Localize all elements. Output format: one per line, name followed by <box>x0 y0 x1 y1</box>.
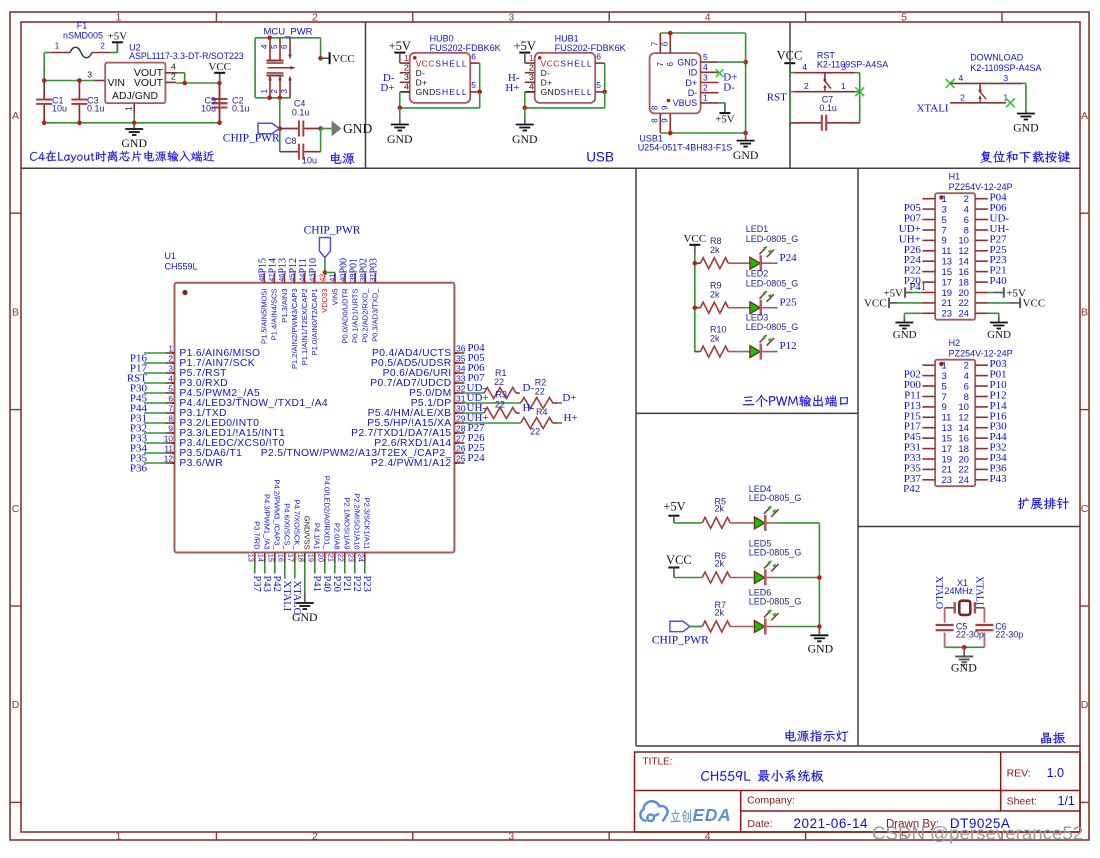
svg-text:32: 32 <box>456 384 466 394</box>
svg-text:21: 21 <box>942 298 953 309</box>
svg-text:VCC: VCC <box>777 49 803 63</box>
svg-text:P20: P20 <box>331 576 342 592</box>
svg-text:CHIP_PWR: CHIP_PWR <box>652 634 709 646</box>
svg-text:33: 33 <box>456 374 466 384</box>
svg-text:4: 4 <box>705 11 711 23</box>
svg-text:7: 7 <box>942 225 947 236</box>
svg-text:22: 22 <box>958 298 969 309</box>
svg-text:11: 11 <box>164 444 173 454</box>
svg-text:3: 3 <box>508 11 514 23</box>
svg-text:3: 3 <box>841 62 846 72</box>
svg-text:8: 8 <box>651 105 660 110</box>
svg-text:23: 23 <box>942 309 953 320</box>
svg-text:P1.2/AIN2/PWM3/CAP3: P1.2/AIN2/PWM3/CAP3 <box>290 289 299 369</box>
svg-text:H-: H- <box>523 402 535 414</box>
svg-text:11: 11 <box>942 246 952 257</box>
svg-text:P1.5/AIN5/MOSI: P1.5/AIN5/MOSI <box>260 289 269 344</box>
svg-text:16: 16 <box>277 554 286 562</box>
svg-text:17: 17 <box>287 554 296 562</box>
svg-text:U254-051T-4BH83-F1S: U254-051T-4BH83-F1S <box>638 143 733 153</box>
svg-text:P4.7/XO/SCK_: P4.7/XO/SCK_ <box>292 499 301 550</box>
svg-text:5: 5 <box>596 80 601 90</box>
svg-text:5: 5 <box>901 11 907 23</box>
svg-text:P23: P23 <box>361 576 372 592</box>
svg-text:48: 48 <box>257 274 266 282</box>
svg-text:18: 18 <box>958 444 969 455</box>
svg-text:PZ254V-12-24P: PZ254V-12-24P <box>949 182 1013 192</box>
svg-text:GND: GND <box>733 148 759 162</box>
svg-text:0.1u: 0.1u <box>819 103 837 113</box>
svg-text:22-30p: 22-30p <box>956 630 984 640</box>
svg-text:RST: RST <box>767 92 787 104</box>
svg-text:13: 13 <box>942 257 953 268</box>
svg-text:CHIP_PWR: CHIP_PWR <box>304 225 361 237</box>
svg-text:VIN5: VIN5 <box>330 289 339 306</box>
svg-text:9: 9 <box>168 424 173 434</box>
svg-text:D-: D- <box>416 68 426 78</box>
svg-text:GND: GND <box>292 610 318 624</box>
svg-text:22: 22 <box>530 427 540 437</box>
svg-text:XTALI: XTALI <box>281 581 292 612</box>
svg-text:P1.4/AIN4/SCS: P1.4/AIN4/SCS <box>270 289 279 341</box>
svg-text:30: 30 <box>456 404 466 414</box>
svg-text:1: 1 <box>168 344 173 354</box>
svg-text:D+: D+ <box>685 78 697 88</box>
svg-text:F1: F1 <box>77 21 88 31</box>
svg-text:45: 45 <box>287 274 296 282</box>
svg-text:5: 5 <box>942 215 947 226</box>
svg-text:VBUS: VBUS <box>673 98 698 108</box>
svg-text:4: 4 <box>703 62 708 72</box>
svg-text:2: 2 <box>312 11 318 23</box>
svg-text:40: 40 <box>338 274 347 282</box>
svg-text:K2-1109SP-A4SA: K2-1109SP-A4SA <box>970 63 1041 73</box>
svg-text:2: 2 <box>312 830 318 842</box>
svg-text:+5V: +5V <box>514 39 536 53</box>
svg-text:H1: H1 <box>949 171 961 181</box>
svg-text:4: 4 <box>802 62 807 72</box>
svg-text:XTALI: XTALI <box>916 102 948 114</box>
svg-text:1: 1 <box>841 81 846 91</box>
svg-text:SHELL: SHELL <box>435 58 467 68</box>
svg-text:H2: H2 <box>949 338 961 348</box>
svg-text:7: 7 <box>656 61 665 66</box>
svg-text:2k: 2k <box>710 333 720 343</box>
svg-text:P3.7/RD: P3.7/RD <box>252 521 261 550</box>
svg-text:1: 1 <box>942 361 947 372</box>
svg-text:USB: USB <box>586 150 614 165</box>
svg-text:P21: P21 <box>341 576 352 592</box>
svg-text:20: 20 <box>958 454 969 465</box>
svg-text:LED1: LED1 <box>746 224 769 234</box>
svg-text:2k: 2k <box>715 504 725 514</box>
svg-text:19: 19 <box>307 554 316 562</box>
svg-text:6: 6 <box>471 51 476 61</box>
svg-text:P24: P24 <box>780 252 798 264</box>
svg-text:10: 10 <box>958 402 969 413</box>
svg-text:LED-0805_G: LED-0805_G <box>749 493 802 503</box>
svg-text:+5V: +5V <box>108 30 128 42</box>
svg-text:2: 2 <box>960 92 965 102</box>
svg-text:C: C <box>12 503 20 515</box>
svg-text:4: 4 <box>529 82 534 92</box>
svg-text:D-: D- <box>723 82 735 94</box>
svg-text:2: 2 <box>270 89 279 94</box>
svg-text:39: 39 <box>348 274 357 282</box>
svg-text:11: 11 <box>942 413 952 424</box>
svg-text:20: 20 <box>958 288 969 299</box>
svg-text:2: 2 <box>804 81 809 91</box>
svg-text:PZ254V-12-24P: PZ254V-12-24P <box>949 349 1013 359</box>
svg-text:23: 23 <box>942 475 953 486</box>
svg-text:LED3: LED3 <box>746 313 769 323</box>
svg-text:P42: P42 <box>271 576 282 592</box>
svg-text:GND: GND <box>121 136 147 150</box>
svg-text:LED-0805_G: LED-0805_G <box>746 278 799 288</box>
svg-text:LED-0805_G: LED-0805_G <box>749 597 802 607</box>
svg-text:P40: P40 <box>990 275 1008 287</box>
svg-text:nSMD005: nSMD005 <box>63 31 103 41</box>
svg-text:4: 4 <box>168 374 173 384</box>
svg-text:C: C <box>1081 503 1089 515</box>
svg-text:P40: P40 <box>321 576 332 592</box>
svg-text:2: 2 <box>529 63 534 73</box>
svg-text:15: 15 <box>942 433 953 444</box>
svg-text:9: 9 <box>942 236 947 247</box>
svg-text:ADJ/GND: ADJ/GND <box>112 90 159 102</box>
svg-text:13: 13 <box>247 554 256 562</box>
svg-text:7: 7 <box>651 41 660 46</box>
svg-text:1: 1 <box>124 106 134 111</box>
svg-text:31: 31 <box>456 394 466 404</box>
svg-text:VOUT: VOUT <box>134 77 164 89</box>
svg-text:1: 1 <box>116 830 122 842</box>
svg-text:2: 2 <box>964 361 969 372</box>
svg-text:7: 7 <box>168 404 173 414</box>
svg-text:+5V: +5V <box>389 39 411 53</box>
svg-text:15: 15 <box>942 267 953 278</box>
svg-text:1: 1 <box>55 42 60 51</box>
svg-text:28: 28 <box>456 424 466 434</box>
svg-text:CH559L: CH559L <box>165 262 198 272</box>
svg-text:D-: D- <box>523 382 535 394</box>
svg-text:10: 10 <box>164 434 174 444</box>
svg-text:22: 22 <box>494 377 504 387</box>
svg-text:2: 2 <box>168 354 173 364</box>
svg-text:D+: D+ <box>380 82 394 94</box>
svg-text:1: 1 <box>260 89 269 94</box>
svg-text:9: 9 <box>942 402 947 413</box>
svg-text:2k: 2k <box>710 289 720 299</box>
svg-text:P2.4/PWM1/A12: P2.4/PWM1/A12 <box>371 458 452 469</box>
svg-text:38: 38 <box>358 274 367 282</box>
svg-text:P03: P03 <box>369 258 380 274</box>
svg-text:P2.2/MISO1/A10: P2.2/MISO1/A10 <box>352 493 361 549</box>
svg-text:24MHz: 24MHz <box>945 586 974 596</box>
svg-text:6: 6 <box>666 61 675 66</box>
svg-text:1: 1 <box>942 194 947 205</box>
svg-text:8: 8 <box>168 414 173 424</box>
svg-text:2: 2 <box>404 63 409 73</box>
svg-text:D: D <box>1081 699 1089 711</box>
svg-text:2k: 2k <box>710 245 720 255</box>
svg-text:36: 36 <box>456 344 466 354</box>
svg-text:Company:: Company: <box>747 795 795 807</box>
svg-text:4: 4 <box>260 44 269 49</box>
svg-text:8: 8 <box>964 392 969 403</box>
svg-text:P24: P24 <box>468 452 486 464</box>
svg-text:LED-0805_G: LED-0805_G <box>746 322 799 332</box>
svg-text:3: 3 <box>703 72 708 82</box>
svg-text:C8: C8 <box>285 136 297 146</box>
svg-text:P0.1/AD1/URTS: P0.1/AD1/URTS <box>351 289 360 343</box>
svg-text:0.1u: 0.1u <box>232 103 250 113</box>
svg-text:15: 15 <box>267 554 276 562</box>
svg-text:VCC: VCC <box>332 53 355 65</box>
svg-text:18: 18 <box>297 554 306 562</box>
svg-text:14: 14 <box>958 257 969 268</box>
svg-text:14: 14 <box>958 423 969 434</box>
svg-text:3: 3 <box>529 72 534 82</box>
svg-text:D-: D- <box>541 68 551 78</box>
svg-text:10u: 10u <box>52 103 67 113</box>
svg-text:4: 4 <box>959 73 964 83</box>
svg-text:P4.0/LED2/A0/RXD1_: P4.0/LED2/A0/RXD1_ <box>322 476 331 551</box>
svg-text:DOWNLOAD: DOWNLOAD <box>970 53 1024 63</box>
svg-text:2k: 2k <box>715 558 725 568</box>
svg-text:LED-0805_G: LED-0805_G <box>749 548 802 558</box>
svg-text:6: 6 <box>168 394 173 404</box>
svg-text:3: 3 <box>280 89 289 94</box>
svg-text:22-30p: 22-30p <box>995 630 1023 640</box>
svg-text:H+: H+ <box>564 412 578 424</box>
svg-text:P43: P43 <box>261 576 272 592</box>
svg-text:VCC: VCC <box>683 233 706 245</box>
svg-text:SHELL: SHELL <box>560 58 592 68</box>
svg-text:14: 14 <box>257 554 266 562</box>
svg-text:23: 23 <box>347 554 356 562</box>
svg-text:27: 27 <box>456 434 466 444</box>
svg-text:35: 35 <box>456 354 466 364</box>
svg-text:P1.0/AIN0/T2/CAP1: P1.0/AIN0/T2/CAP1 <box>310 289 319 356</box>
svg-text:4: 4 <box>171 62 176 72</box>
svg-text:13: 13 <box>942 423 953 434</box>
svg-text:P12: P12 <box>780 340 797 352</box>
svg-text:0.1u: 0.1u <box>87 103 105 113</box>
svg-text:P22: P22 <box>351 576 362 592</box>
svg-text:VCC: VCC <box>1023 298 1046 310</box>
svg-text:UH+: UH+ <box>467 412 489 424</box>
svg-text:29: 29 <box>456 414 466 424</box>
svg-text:21: 21 <box>327 554 336 562</box>
svg-text:P42: P42 <box>903 483 920 495</box>
svg-text:GND: GND <box>987 329 1011 341</box>
svg-text:1: 1 <box>703 93 708 103</box>
svg-text:H+: H+ <box>505 82 519 94</box>
svg-text:D-: D- <box>688 88 698 98</box>
svg-text:D+: D+ <box>562 392 576 404</box>
svg-text:XTALI: XTALI <box>973 576 984 605</box>
svg-text:5: 5 <box>168 384 173 394</box>
svg-text:P0.0/AD0/UDTR: P0.0/AD0/UDTR <box>340 288 349 344</box>
svg-text:CSDN @perseverance52: CSDN @perseverance52 <box>872 823 1083 844</box>
svg-text:VCC: VCC <box>864 298 887 310</box>
svg-text:3: 3 <box>87 70 92 80</box>
svg-text:7: 7 <box>942 392 947 403</box>
svg-text:12: 12 <box>958 413 969 424</box>
svg-text:46: 46 <box>277 274 286 282</box>
svg-text:2021-06-14: 2021-06-14 <box>794 816 869 831</box>
svg-text:4: 4 <box>964 371 969 382</box>
svg-text:GND: GND <box>951 661 977 675</box>
svg-text:19: 19 <box>942 288 953 299</box>
svg-text:A: A <box>1081 110 1088 122</box>
svg-text:SHELL: SHELL <box>435 87 467 97</box>
svg-text:6: 6 <box>964 215 969 226</box>
svg-text:VCC: VCC <box>416 58 435 68</box>
svg-text:P4.6/XI/SCS_: P4.6/XI/SCS_ <box>282 503 291 550</box>
svg-text:3: 3 <box>168 364 173 374</box>
svg-text:47: 47 <box>267 274 276 282</box>
svg-text:P2.0/A8: P2.0/A8 <box>332 523 341 550</box>
svg-text:2: 2 <box>100 42 105 51</box>
svg-text:22: 22 <box>535 387 545 397</box>
svg-text:GND: GND <box>677 57 698 67</box>
svg-text:P1.3/AIN3: P1.3/AIN3 <box>280 289 289 323</box>
svg-text:22: 22 <box>337 554 346 562</box>
svg-text:GND: GND <box>808 642 834 656</box>
svg-text:37: 37 <box>368 274 377 282</box>
svg-text:25: 25 <box>456 454 466 464</box>
svg-text:GND: GND <box>512 132 538 146</box>
svg-text:5: 5 <box>270 44 279 49</box>
svg-text:Date:: Date: <box>747 818 772 830</box>
svg-text:GND/VSS: GND/VSS <box>302 516 311 550</box>
svg-text:Sheet:: Sheet: <box>1007 796 1037 808</box>
svg-text:4: 4 <box>964 204 969 215</box>
svg-text:P3.6/WR: P3.6/WR <box>179 458 223 469</box>
svg-text:P4.3/PWM1_/A3: P4.3/PWM1_/A3 <box>262 494 271 549</box>
svg-text:+5V: +5V <box>715 113 735 125</box>
svg-text:3: 3 <box>1003 73 1008 83</box>
svg-text:24: 24 <box>958 475 969 486</box>
svg-text:GND: GND <box>343 121 372 136</box>
svg-text:P43: P43 <box>990 473 1008 485</box>
svg-text:A: A <box>12 110 19 122</box>
svg-text:EDA: EDA <box>693 805 732 825</box>
svg-text:MCU_PWR: MCU_PWR <box>263 27 312 38</box>
svg-text:GND: GND <box>416 87 436 97</box>
svg-text:10u: 10u <box>302 156 317 166</box>
svg-text:P0.3/AD3/TXD_: P0.3/AD3/TXD_ <box>371 288 380 342</box>
svg-text:26: 26 <box>456 444 466 454</box>
svg-text:6: 6 <box>280 44 289 49</box>
svg-text:22: 22 <box>495 399 505 409</box>
svg-text:FUS202-FDBK6K: FUS202-FDBK6K <box>430 43 501 53</box>
svg-text:D+: D+ <box>541 78 553 88</box>
svg-text:P4.2/PWM3_/CAP3_: P4.2/PWM3_/CAP3_ <box>272 479 281 550</box>
svg-text:1/1: 1/1 <box>1058 794 1075 808</box>
svg-text:3: 3 <box>942 371 947 382</box>
svg-text:2: 2 <box>964 194 969 205</box>
svg-text:P2.1/MOSI1/A9: P2.1/MOSI1/A9 <box>342 497 351 549</box>
svg-text:CHIP_PWR: CHIP_PWR <box>223 133 280 145</box>
svg-text:XTALO: XTALO <box>933 576 944 609</box>
svg-text:2k: 2k <box>715 607 725 617</box>
svg-text:1: 1 <box>529 53 534 63</box>
svg-text:VCC: VCC <box>541 58 560 68</box>
svg-text:SHELL: SHELL <box>560 87 592 97</box>
svg-text:19: 19 <box>942 454 953 465</box>
svg-text:R4: R4 <box>536 407 548 417</box>
svg-text:10u: 10u <box>201 103 216 113</box>
svg-text:REV:: REV: <box>1007 768 1031 780</box>
svg-text:6: 6 <box>964 381 969 392</box>
svg-text:6: 6 <box>596 51 601 61</box>
svg-text:41: 41 <box>328 274 337 282</box>
svg-text:R3: R3 <box>496 389 508 399</box>
svg-text:K2-1109SP-A4SA: K2-1109SP-A4SA <box>817 60 888 70</box>
svg-text:5: 5 <box>471 80 476 90</box>
svg-text:44: 44 <box>297 274 306 282</box>
svg-text:4: 4 <box>404 82 409 92</box>
svg-text:16: 16 <box>958 433 969 444</box>
svg-text:21: 21 <box>942 465 953 476</box>
svg-text:9: 9 <box>661 105 670 110</box>
svg-text:P25: P25 <box>780 296 798 308</box>
svg-text:3: 3 <box>942 204 947 215</box>
svg-text:P1.1/AIN1/T2EX/CAP2: P1.1/AIN1/T2EX/CAP2 <box>300 289 309 366</box>
svg-text:GND: GND <box>387 132 413 146</box>
svg-text:B: B <box>12 306 19 318</box>
svg-text:ASPL1117-3.3-DT-R/SOT223: ASPL1117-3.3-DT-R/SOT223 <box>129 51 244 61</box>
svg-text:1: 1 <box>404 53 409 63</box>
svg-text:D: D <box>12 699 20 711</box>
svg-text:P37: P37 <box>251 576 262 592</box>
svg-text:GND: GND <box>1013 121 1039 135</box>
svg-text:P36: P36 <box>130 463 148 475</box>
svg-text:VIN: VIN <box>108 77 126 89</box>
svg-text:12: 12 <box>164 454 174 464</box>
svg-text:17: 17 <box>942 444 953 455</box>
svg-text:P2.3/SCK1/A11: P2.3/SCK1/A11 <box>362 498 371 550</box>
svg-text:20: 20 <box>317 554 326 562</box>
svg-text:5: 5 <box>942 381 947 392</box>
svg-text:LED2: LED2 <box>746 269 769 279</box>
svg-text:P4.1/A1: P4.1/A1 <box>312 523 321 550</box>
svg-text:18: 18 <box>958 277 969 288</box>
svg-text:9: 9 <box>661 118 670 123</box>
svg-text:ID: ID <box>688 68 698 78</box>
svg-text:5: 5 <box>703 52 708 62</box>
svg-text:1.0: 1.0 <box>1047 766 1064 780</box>
svg-text:VCC: VCC <box>208 61 231 73</box>
svg-text:43: 43 <box>308 274 317 282</box>
svg-text:FUS202-FDBK6K: FUS202-FDBK6K <box>555 43 626 53</box>
svg-text:17: 17 <box>942 277 953 288</box>
svg-text:24: 24 <box>958 309 969 320</box>
svg-text:VCC: VCC <box>666 553 692 567</box>
svg-text:P41: P41 <box>311 576 322 592</box>
svg-text:10: 10 <box>958 236 969 247</box>
svg-text:6: 6 <box>661 41 670 46</box>
svg-text:8: 8 <box>651 118 660 123</box>
svg-text:D+: D+ <box>416 78 428 88</box>
svg-text:GND: GND <box>893 329 917 341</box>
svg-text:P41: P41 <box>909 281 926 293</box>
svg-text:VDD33: VDD33 <box>320 289 329 313</box>
svg-text:LED-0805_G: LED-0805_G <box>746 234 799 244</box>
